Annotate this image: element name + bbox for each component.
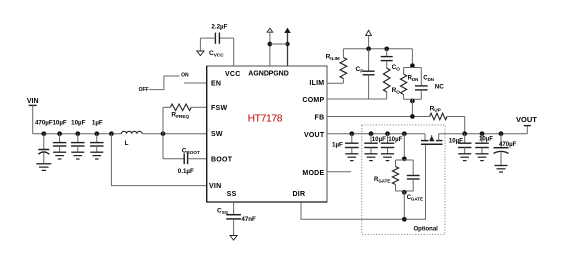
wire DIR gate line xyxy=(301,145,426,222)
switch EN on-off xyxy=(139,72,207,93)
pin label COMP xyxy=(302,97,324,104)
capacitor CIN3 10µF xyxy=(71,119,86,152)
svg-text:10µF: 10µF xyxy=(388,136,402,143)
capacitor COUT3 10µF xyxy=(449,131,472,153)
svg-text:VOUT: VOUT xyxy=(516,115,537,124)
ground for COUT4 xyxy=(476,154,489,161)
pin label SW xyxy=(211,131,223,138)
wire VIN pin branch xyxy=(109,131,207,185)
ground for COUT2 xyxy=(381,154,394,161)
pin label DIR xyxy=(292,191,305,198)
svg-text:ON: ON xyxy=(181,72,189,78)
svg-text:VIN: VIN xyxy=(27,98,39,105)
svg-text:VCC: VCC xyxy=(225,71,241,78)
capacitor CBOOT 0.1µF xyxy=(163,134,207,175)
svg-text:Optional: Optional xyxy=(414,227,439,233)
capacitor COUT4 10µF xyxy=(475,131,493,153)
ground PGND symbol xyxy=(284,28,290,66)
svg-text:2.2µF: 2.2µF xyxy=(211,24,227,31)
svg-text:VOUT: VOUT xyxy=(304,132,325,139)
ground for COUT5 xyxy=(495,166,508,173)
svg-text:PGND: PGND xyxy=(269,70,289,77)
capacitor CO compensation xyxy=(381,46,401,71)
resistor RUP feedback xyxy=(327,105,465,133)
pin label VOUT xyxy=(304,132,325,139)
op-amp U1 HT7178 IC body xyxy=(206,66,327,202)
wire input rail xyxy=(33,133,122,135)
svg-text:FB: FB xyxy=(315,115,325,122)
capacitor COUT0 1µF xyxy=(332,131,359,153)
pin label BOOT xyxy=(211,156,233,163)
svg-text:VIN: VIN xyxy=(209,183,221,190)
svg-text:470µF: 470µF xyxy=(35,119,53,126)
ground for COUT0 xyxy=(345,154,358,161)
svg-text:OFF: OFF xyxy=(139,87,149,93)
svg-text:NC: NC xyxy=(435,83,444,90)
svg-text:1µF: 1µF xyxy=(332,141,343,148)
svg-text:10µF: 10µF xyxy=(479,136,493,143)
capacitor COUT5 470µF electrolytic xyxy=(494,131,517,165)
svg-text:470µF: 470µF xyxy=(499,141,517,148)
capacitor CIN2 10µF xyxy=(52,119,66,152)
svg-text:AGND: AGND xyxy=(248,70,269,77)
pin label PGND xyxy=(269,70,289,77)
svg-text:BOOT: BOOT xyxy=(211,156,233,163)
transistor Q1 PMOS load switch xyxy=(421,134,443,145)
capacitor COUT1 10µF xyxy=(364,131,386,153)
pin label FB xyxy=(315,115,325,122)
resistor RFREQ xyxy=(163,104,207,134)
capacitor CSS 47nF xyxy=(217,202,256,236)
pin label VIN xyxy=(209,183,221,190)
ground for CIN4 xyxy=(90,152,103,159)
inductor L xyxy=(121,131,142,147)
svg-text:FSW: FSW xyxy=(211,105,227,112)
resistor RGATE with parallel CGATE xyxy=(374,131,423,219)
capacitor CVCC 2.2µF xyxy=(200,24,233,67)
capacitor CIN4 1µF xyxy=(90,119,104,152)
svg-text:CDN: CDN xyxy=(423,76,434,82)
svg-text:DIR: DIR xyxy=(292,191,305,198)
wire AGND-PGND tie xyxy=(270,43,288,45)
wire VOUT line xyxy=(327,133,425,135)
svg-text:COMP: COMP xyxy=(302,97,324,104)
resistor RDN with parallel CDN xyxy=(401,49,445,117)
svg-text:MODE: MODE xyxy=(302,170,324,177)
node VIN input terminal xyxy=(27,98,39,134)
svg-text:SW: SW xyxy=(211,131,223,138)
svg-text:RGATE: RGATE xyxy=(374,177,390,183)
capacitor COUT2 10µF xyxy=(381,131,403,153)
svg-text:10µF: 10µF xyxy=(449,137,463,144)
svg-text:1µF: 1µF xyxy=(92,119,103,126)
svg-text:RDN: RDN xyxy=(408,76,419,82)
svg-text:EN: EN xyxy=(211,80,221,87)
wire output rail xyxy=(439,133,528,135)
svg-text:CGATE: CGATE xyxy=(407,195,423,201)
pin label EN xyxy=(211,80,221,87)
pin label AGND xyxy=(248,70,269,77)
ground AGND symbol above rail xyxy=(366,30,372,51)
ground for CVCC xyxy=(197,38,204,56)
wire COMP line xyxy=(327,98,387,100)
resistor RILIM xyxy=(326,49,347,83)
ground for COUT1 xyxy=(365,154,378,161)
wire SW node xyxy=(142,131,207,136)
resistor RO compensation xyxy=(383,68,400,99)
capacitor CIN1 470µF electrolytic xyxy=(35,119,53,164)
svg-text:10µF: 10µF xyxy=(71,119,85,126)
pin label FSW xyxy=(211,105,227,112)
svg-text:0.1µF: 0.1µF xyxy=(178,168,194,175)
svg-text:ILIM: ILIM xyxy=(309,80,324,87)
svg-text:HT7178: HT7178 xyxy=(248,113,283,124)
wire AGND rail xyxy=(343,48,412,50)
ground for CIN3 xyxy=(71,152,84,159)
node VOUT output terminal xyxy=(516,115,537,134)
capacitor CP compensation xyxy=(356,49,375,99)
pin label ILIM xyxy=(309,80,324,87)
wire MODE stub xyxy=(327,171,351,173)
ground for COUT3 xyxy=(458,154,471,161)
pin label MODE xyxy=(302,170,324,177)
svg-text:10µF: 10µF xyxy=(372,136,386,143)
ground for CIN1 xyxy=(36,164,51,171)
svg-text:10µF: 10µF xyxy=(52,119,66,126)
pin label SS xyxy=(227,191,237,198)
ground AGND symbol xyxy=(267,28,273,66)
svg-text:L: L xyxy=(125,140,129,147)
pin label VCC xyxy=(225,71,241,78)
svg-text:47nF: 47nF xyxy=(241,216,256,223)
svg-text:SS: SS xyxy=(227,191,237,198)
ground for CIN2 xyxy=(53,152,66,159)
ground for CSS xyxy=(230,236,237,241)
optional circuit dashed box xyxy=(362,125,445,234)
